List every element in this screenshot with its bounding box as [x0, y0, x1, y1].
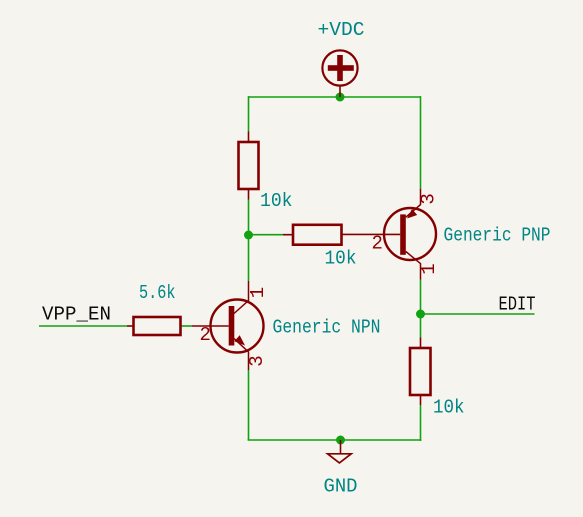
svg-text:10k: 10k: [260, 190, 293, 212]
power symbol +VDC: [322, 50, 357, 97]
wire node A to R2: [249, 234, 284, 236]
wire left rail upper: [248, 96, 250, 131]
svg-text:Generic NPN: Generic NPN: [273, 317, 381, 339]
svg-text:5.6k: 5.6k: [139, 282, 176, 304]
wire EDIT: [421, 313, 535, 315]
svg-text:2: 2: [372, 233, 383, 255]
wire left rail lower: [248, 370, 250, 440]
junction node A: [244, 231, 253, 240]
svg-text:GND: GND: [324, 476, 358, 498]
wire VPP_EN: [39, 325, 127, 327]
svg-text:VPP_EN: VPP_EN: [42, 304, 111, 326]
svg-text:3: 3: [418, 193, 440, 204]
wire left rail middle: [248, 200, 250, 282]
resistor R3 5.6k (left): [127, 317, 181, 335]
transistor Q2 Generic PNP: [384, 189, 436, 280]
svg-text:Generic PNP: Generic PNP: [444, 225, 551, 247]
transistor Q1 Generic NPN: [192, 281, 264, 370]
svg-text:+VDC: +VDC: [318, 19, 365, 41]
resistor R4 10k (right): [410, 338, 431, 406]
resistor R2 10k (horizontal): [283, 225, 400, 245]
svg-text:1: 1: [247, 287, 269, 298]
wire right rail middle: [420, 280, 422, 338]
svg-text:2: 2: [200, 324, 211, 346]
wire bottom rail: [248, 439, 422, 441]
wire right rail lower: [420, 405, 422, 441]
ground symbol: [328, 440, 352, 463]
junction EDIT node: [416, 310, 425, 319]
wire R3 right gap: [181, 325, 192, 327]
junction +VDC node: [336, 93, 345, 102]
svg-text:10k: 10k: [433, 397, 465, 419]
svg-text:3: 3: [246, 355, 268, 366]
wire right rail upper: [420, 96, 422, 189]
junction GND node: [336, 436, 345, 445]
wire top rail: [249, 96, 421, 98]
svg-text:EDIT: EDIT: [499, 294, 536, 316]
svg-text:1: 1: [418, 263, 440, 274]
svg-text:10k: 10k: [325, 248, 357, 270]
resistor R1 10k (top left): [239, 132, 259, 200]
